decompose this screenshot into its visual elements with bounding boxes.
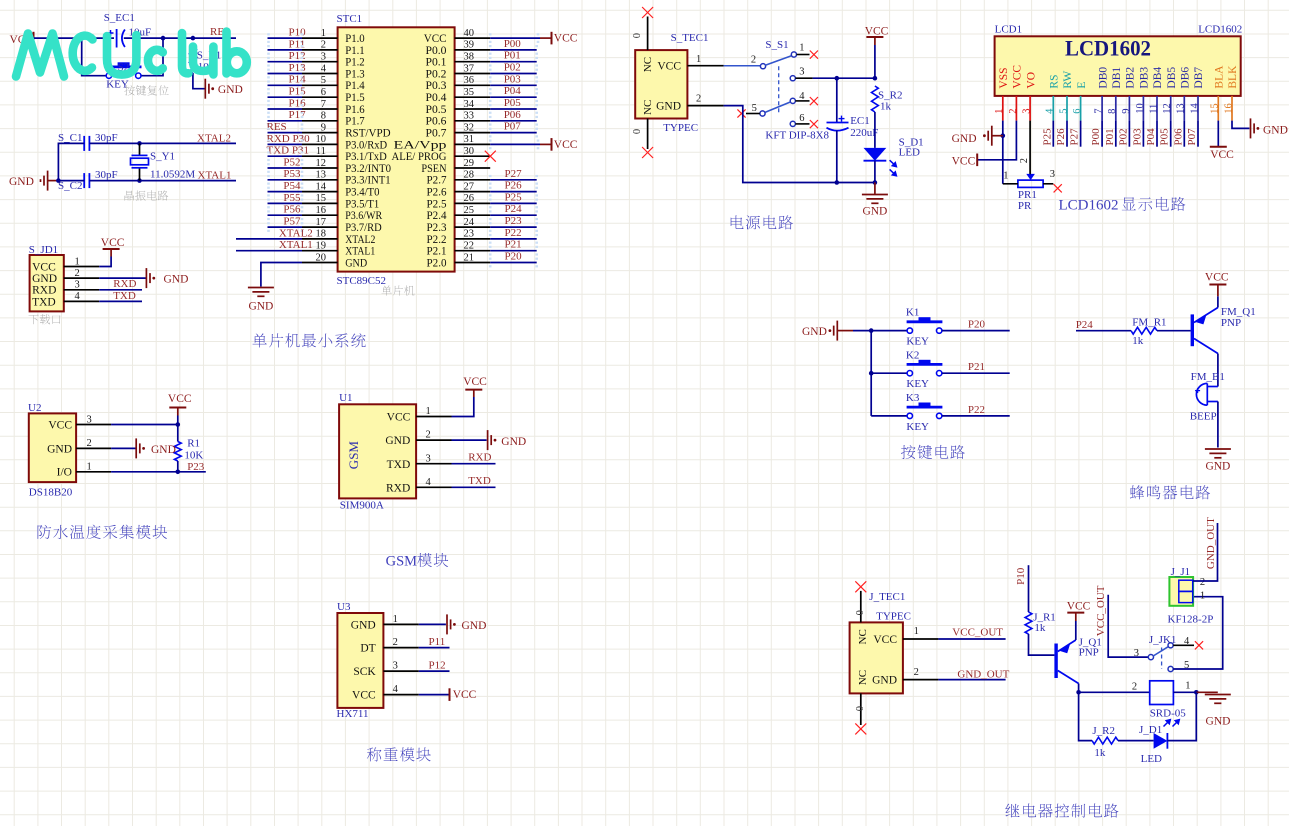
svg-text:GND: GND — [862, 206, 887, 218]
svg-text:GND_OUT: GND_OUT — [1205, 517, 1217, 569]
svg-text:KEY: KEY — [906, 378, 929, 390]
junction — [161, 36, 166, 41]
wire net P03 — [490, 84, 537, 86]
ground (U1) — [488, 430, 497, 450]
svg-text:TXD P31: TXD P31 — [267, 145, 309, 157]
svg-text:2: 2 — [321, 40, 326, 51]
wire collector to VCC — [1217, 296, 1219, 307]
wire coil to ground — [1173, 691, 1196, 693]
wire net P11 — [268, 49, 303, 51]
svg-text:P21: P21 — [968, 361, 985, 373]
wire net P10 — [268, 37, 303, 39]
S_JD1 pin 3 RXD — [64, 289, 99, 291]
svg-text:FM_B1: FM_B1 — [1191, 371, 1225, 383]
svg-text:P07: P07 — [1186, 128, 1198, 146]
switch JK1 pin4 lead — [1173, 644, 1194, 646]
wire GND to pin1 — [992, 135, 1003, 137]
wire LCD pin9 — [1128, 121, 1130, 147]
mcu pin 36 (P0.3) — [455, 84, 491, 86]
gray label 按键复位 — [124, 85, 168, 95]
wire junction down — [1079, 692, 1092, 740]
junction marks — [267, 45, 270, 55]
svg-text:KEY: KEY — [906, 336, 929, 348]
svg-text:P15: P15 — [289, 86, 307, 98]
svg-text:GND: GND — [151, 444, 176, 456]
resistor R1 10K — [177, 425, 179, 442]
svg-text:U2: U2 — [28, 402, 41, 414]
svg-text:P24: P24 — [1076, 319, 1094, 331]
svg-text:P52: P52 — [283, 156, 300, 168]
svg-text:7: 7 — [1094, 109, 1105, 114]
svg-text:1: 1 — [1003, 171, 1008, 182]
svg-text:22: 22 — [464, 241, 475, 252]
svg-text:S_Y1: S_Y1 — [150, 151, 175, 163]
wire net P12 — [419, 670, 450, 672]
no-ERC mark pin30 — [485, 151, 496, 162]
svg-text:P11: P11 — [289, 38, 306, 50]
svg-text:P2.5: P2.5 — [427, 198, 447, 210]
section title 蜂鸣器电路 — [1130, 485, 1210, 499]
ground (buzzer) — [1205, 449, 1231, 458]
svg-text:36: 36 — [464, 75, 475, 86]
svg-text:8: 8 — [321, 111, 326, 122]
svg-text:0: 0 — [855, 706, 866, 711]
svg-text:LED: LED — [899, 147, 920, 159]
svg-text:P17: P17 — [289, 109, 307, 121]
svg-text:TXD: TXD — [113, 290, 136, 302]
wire TEC1 pin2 down — [724, 106, 875, 183]
wire LCD pin16 (BLK) — [1232, 121, 1249, 129]
section title 称重模块 — [367, 747, 431, 761]
svg-text:VCC: VCC — [387, 412, 411, 424]
S_JD1 pin 4 TXD — [64, 300, 99, 302]
svg-text:DB2: DB2 — [1125, 67, 1137, 89]
svg-text:9: 9 — [321, 122, 326, 133]
svg-text:P1.4: P1.4 — [345, 80, 365, 92]
mcu pin 19 (XTAL1) — [302, 250, 338, 252]
svg-text:P00: P00 — [1090, 128, 1102, 146]
svg-text:14: 14 — [316, 181, 327, 192]
wire left bus — [58, 143, 84, 180]
wire P10 down — [1028, 565, 1030, 612]
wire J_TEC1 bottom stub — [860, 693, 862, 725]
svg-text:19: 19 — [316, 241, 327, 252]
U2 pin 3 VCC — [76, 424, 111, 426]
svg-text:40: 40 — [464, 28, 475, 39]
svg-text:KEY: KEY — [906, 421, 929, 433]
junction — [873, 76, 878, 81]
svg-text:RES: RES — [267, 121, 287, 133]
wire net RXD — [99, 289, 142, 291]
svg-text:U3: U3 — [337, 601, 351, 613]
junction — [137, 141, 142, 146]
svg-text:GND: GND — [345, 257, 367, 269]
svg-text:GND: GND — [164, 273, 189, 285]
svg-text:1: 1 — [914, 626, 919, 637]
svg-text:BLA: BLA — [1214, 65, 1226, 89]
wire C2 to XTAL1 — [89, 180, 236, 182]
svg-text:VCC: VCC — [1012, 65, 1024, 89]
wire pin20 to ground — [261, 263, 302, 287]
svg-text:P02: P02 — [1117, 128, 1129, 145]
no-ERC mark (S1 pin4) — [810, 97, 818, 105]
svg-text:1: 1 — [87, 462, 92, 473]
svg-text:P04: P04 — [504, 85, 522, 97]
svg-text:P1.0: P1.0 — [345, 33, 365, 45]
wire LCD pin3 (VO) — [1029, 121, 1031, 174]
junction marks — [489, 104, 492, 114]
svg-text:3: 3 — [1022, 109, 1033, 114]
svg-text:1k: 1k — [1094, 747, 1106, 759]
svg-text:2: 2 — [87, 438, 92, 449]
junction marks — [267, 187, 270, 197]
junction marks — [267, 210, 270, 220]
svg-text:GND: GND — [802, 326, 827, 338]
mcu pin 10 (P3.0/RxD) — [302, 143, 338, 145]
svg-text:P55: P55 — [283, 192, 301, 204]
svg-text:DT: DT — [360, 643, 375, 655]
mcu gray label 单片机 — [381, 285, 414, 295]
wire LCD pin5 — [1066, 121, 1068, 147]
connector J_J1 body — [1169, 577, 1193, 606]
wire TEC1 bottom stub — [647, 119, 649, 150]
mcu pin 1 (P1.0) — [302, 37, 338, 39]
capacitor S_EC1 10uF — [117, 29, 125, 48]
no-ERC mark (S1 pin6) — [810, 120, 818, 128]
mcu pin 13 (P3.3/INT1) — [302, 179, 338, 181]
svg-text:RS: RS — [1049, 75, 1061, 89]
wire net P15 — [268, 96, 303, 98]
mcu pin 11 (P3.1/TxD) — [302, 155, 338, 157]
svg-text:P3.5/T1: P3.5/T1 — [345, 198, 379, 210]
svg-text:I/O: I/O — [57, 467, 72, 479]
resistor FM_R1 1k — [1131, 327, 1157, 334]
svg-text:P13: P13 — [289, 62, 307, 74]
wire LCD pin12 — [1170, 121, 1172, 147]
switch pin6 circle — [790, 121, 795, 126]
junction — [835, 76, 840, 81]
svg-text:P14: P14 — [289, 74, 307, 86]
mcu pin 29 (PSEN) — [455, 167, 491, 169]
svg-text:P1.7: P1.7 — [345, 116, 365, 128]
svg-text:P04: P04 — [1145, 128, 1157, 146]
mcu pin 6 (P1.5) — [302, 96, 338, 98]
svg-text:GND_OUT: GND_OUT — [957, 669, 1009, 681]
mcu pin 34 (P0.5) — [455, 108, 491, 110]
svg-text:P03: P03 — [504, 73, 522, 85]
svg-text:LCD1602: LCD1602 — [1198, 23, 1242, 35]
svg-text:12: 12 — [316, 158, 327, 169]
wire net P13 — [268, 73, 303, 75]
switch pin1 circle — [791, 52, 796, 57]
mcu STC1 body — [338, 27, 455, 271]
mcu pin 7 (P1.6) — [302, 108, 338, 110]
section title 防水温度采集模块 — [38, 525, 168, 539]
U1 pin 2 GND — [416, 439, 451, 441]
svg-text:3: 3 — [1050, 169, 1055, 180]
wire LCD pin11 — [1156, 121, 1158, 147]
mcu pin 33 (P0.6) — [455, 120, 491, 122]
svg-text:GND: GND — [1205, 460, 1230, 472]
no-ERC mark (TEC1 top) — [642, 7, 653, 18]
wire bus to K2 — [871, 372, 907, 374]
switch pin1 lead — [797, 54, 810, 56]
junction marks — [489, 199, 492, 209]
logo MCUclub — [16, 32, 247, 77]
U1 pin 4 RXD — [416, 486, 451, 488]
no-ERC mark (PR1 pin3) — [1054, 184, 1062, 192]
svg-text:RXD: RXD — [32, 285, 56, 297]
wire net TXD(pin11) — [268, 155, 303, 157]
mcu pin 20 (GND) — [302, 262, 338, 264]
switch dashed link — [778, 66, 780, 113]
svg-text:ALE/ PROG: ALE/ PROG — [392, 151, 447, 163]
mcu pin 32 (P0.7) — [455, 132, 491, 134]
svg-text:S_C1: S_C1 — [58, 132, 82, 144]
power VCC (U2) — [169, 407, 186, 409]
svg-text:11: 11 — [316, 146, 326, 157]
svg-text:TXD: TXD — [32, 296, 56, 308]
svg-text:P3.6/WR: P3.6/WR — [345, 210, 382, 222]
svg-text:VCC: VCC — [101, 237, 125, 249]
svg-text:0: 0 — [632, 129, 643, 134]
wire net P11 — [419, 647, 450, 649]
svg-text:4: 4 — [393, 684, 399, 695]
svg-text:LCD1602: LCD1602 — [1065, 36, 1151, 61]
svg-text:1: 1 — [426, 406, 431, 417]
svg-text:34: 34 — [464, 99, 475, 110]
LCD1 body — [995, 36, 1241, 96]
svg-text:P3.0/RxD: P3.0/RxD — [345, 139, 387, 151]
svg-text:RXD: RXD — [468, 451, 491, 463]
svg-text:21: 21 — [464, 252, 475, 263]
wire EC1 branch top — [836, 78, 838, 122]
junction marks — [267, 199, 270, 209]
svg-text:VCC: VCC — [1067, 600, 1091, 612]
svg-text:KFT DIP-8X8: KFT DIP-8X8 — [765, 130, 829, 142]
no-ERC mark (J_TEC1 top) — [855, 581, 866, 592]
wire net P17 — [268, 120, 303, 122]
svg-text:2: 2 — [914, 667, 919, 678]
wire button right leg — [141, 38, 163, 76]
svg-text:P2.3: P2.3 — [427, 222, 447, 234]
svg-text:P25: P25 — [505, 191, 523, 203]
svg-text:17: 17 — [316, 217, 327, 228]
svg-text:XTAL1: XTAL1 — [198, 170, 232, 182]
wire cap to RES — [124, 37, 236, 39]
mcu pin 40 (VCC) — [455, 37, 491, 39]
svg-text:S_JD1: S_JD1 — [29, 244, 58, 256]
svg-text:33: 33 — [464, 111, 475, 122]
svg-text:15: 15 — [316, 193, 327, 204]
svg-text:STC1: STC1 — [337, 13, 363, 25]
wire J_Q1 collector to VCC — [1075, 621, 1077, 640]
svg-text:P27: P27 — [505, 168, 523, 180]
resistor J_R2 1k — [1092, 737, 1118, 744]
svg-text:RXD P30: RXD P30 — [267, 133, 311, 145]
svg-text:6: 6 — [799, 113, 804, 124]
wire J_J1 pin2 to GND_OUT — [1193, 523, 1217, 581]
svg-text:15: 15 — [1210, 103, 1221, 114]
ground (U2) — [136, 438, 145, 458]
svg-text:VCC: VCC — [32, 261, 56, 273]
pushbutton K2 — [907, 360, 943, 376]
mcu pin 21 (P2.0) — [455, 262, 491, 264]
wire net P26 — [490, 191, 537, 193]
mcu pin 28 (P2.7) — [455, 179, 491, 181]
svg-text:P05: P05 — [1159, 128, 1171, 146]
svg-text:4: 4 — [426, 477, 432, 488]
svg-text:DB6: DB6 — [1180, 67, 1192, 89]
junction marks — [489, 128, 492, 138]
mcu pin 26 (P2.5) — [455, 202, 491, 204]
wire net XTAL2(pin18) — [236, 238, 302, 240]
svg-text:P12: P12 — [429, 660, 446, 672]
mcu pin 37 (P0.2) — [455, 73, 491, 75]
wire J_R1 to base — [1029, 634, 1055, 655]
wire U2 VCC — [111, 424, 178, 426]
pushbutton K1 — [907, 317, 943, 333]
mcu pin 12 (P3.2/INT0) — [302, 167, 338, 169]
power VCC (pin40) — [551, 32, 553, 45]
junction marks — [489, 116, 492, 126]
switch pin2 circle — [760, 64, 765, 69]
wire net P21 — [490, 250, 537, 252]
svg-text:GND: GND — [9, 176, 34, 188]
S_JD1 pin 2 GND — [64, 277, 99, 279]
ground (U3) — [447, 614, 456, 634]
svg-text:GSM: GSM — [386, 554, 418, 570]
svg-text:P26: P26 — [505, 180, 523, 192]
wire EC1 branch bottom — [836, 131, 838, 183]
wire net XTAL1(pin19) — [236, 250, 302, 252]
junction marks — [489, 187, 492, 197]
module U1 body — [339, 404, 416, 498]
svg-text:35: 35 — [464, 87, 475, 98]
junction marks — [489, 246, 492, 256]
svg-text:P27: P27 — [1069, 128, 1081, 146]
svg-text:VCC: VCC — [1210, 149, 1234, 161]
svg-text:VCC: VCC — [463, 376, 487, 388]
pot PR1 body — [1018, 180, 1043, 187]
wire net P00 — [490, 49, 537, 51]
svg-text:10: 10 — [1135, 103, 1146, 114]
wire net P23 — [490, 226, 537, 228]
no-ERC mark (S1 pin5) — [737, 109, 745, 117]
wire VCC stub — [177, 416, 179, 425]
U3 pin 2 DT — [383, 647, 418, 649]
wire VCC stub — [874, 37, 876, 45]
wire net P54 — [268, 191, 303, 193]
svg-text:P25: P25 — [1041, 128, 1053, 146]
svg-text:16: 16 — [1223, 103, 1234, 114]
svg-text:1: 1 — [1200, 591, 1205, 602]
svg-text:DB1: DB1 — [1111, 67, 1123, 89]
svg-text:3: 3 — [799, 66, 804, 77]
svg-text:2: 2 — [393, 637, 398, 648]
svg-text:XTAL1: XTAL1 — [279, 239, 313, 251]
wire LCD pin14 — [1197, 121, 1199, 147]
svg-text:GND: GND — [656, 101, 681, 113]
switch JK1 dashed link — [1161, 648, 1163, 670]
wire LCD pin4 — [1052, 121, 1054, 147]
wire LED to ground rail — [874, 161, 876, 183]
svg-text:P1.5: P1.5 — [345, 92, 365, 104]
svg-text:J_J1: J_J1 — [1171, 566, 1191, 578]
switch JK1 arm — [1153, 647, 1168, 656]
svg-text:10K: 10K — [184, 450, 203, 462]
switch JK1 pin4 circle — [1168, 643, 1173, 648]
mcu pin 14 (P3.4/T0) — [302, 191, 338, 193]
svg-text:1k: 1k — [1034, 622, 1046, 634]
capacitor S_C2 30pF — [84, 173, 89, 188]
wire pin31 to VCC — [490, 143, 540, 145]
svg-text:P2.1: P2.1 — [427, 246, 447, 258]
svg-text:NC: NC — [857, 670, 869, 685]
svg-text:LED: LED — [1141, 753, 1162, 765]
svg-text:23: 23 — [464, 229, 475, 240]
svg-text:LCD1: LCD1 — [995, 23, 1023, 35]
wire pin3 to VCC rail — [813, 77, 875, 79]
J_TEC1 pin 1 VCC — [903, 638, 939, 640]
wire net P05 — [490, 108, 537, 110]
svg-text:PNP: PNP — [1079, 647, 1099, 659]
power VCC (pin31) — [551, 138, 553, 151]
wire net GND_OUT — [938, 679, 1005, 681]
svg-text:P0.5: P0.5 — [426, 104, 447, 116]
wire TEC1 top stub — [647, 17, 649, 51]
no-ERC mark (JK1 pin4) — [1195, 641, 1203, 649]
svg-text:0: 0 — [855, 610, 866, 615]
svg-text:R1: R1 — [187, 437, 200, 449]
svg-text:P54: P54 — [283, 180, 301, 192]
svg-text:P26: P26 — [1055, 128, 1067, 146]
svg-text:1: 1 — [1185, 681, 1190, 692]
svg-text:P00: P00 — [504, 38, 522, 50]
svg-text:1k: 1k — [880, 101, 892, 113]
wire LED up to junction — [1167, 692, 1196, 740]
junction — [873, 180, 878, 185]
junction — [1194, 690, 1199, 695]
svg-text:P12: P12 — [289, 50, 306, 62]
svg-text:TYPEC: TYPEC — [876, 610, 911, 622]
switch arm 2-1 — [765, 56, 792, 66]
wire resistor to ground — [193, 73, 205, 89]
svg-text:P23: P23 — [187, 461, 205, 473]
svg-text:XTAL2: XTAL2 — [345, 234, 375, 246]
svg-text:30pF: 30pF — [95, 169, 118, 181]
svg-text:P56: P56 — [283, 204, 301, 216]
svg-text:P3.4/T0: P3.4/T0 — [345, 187, 380, 199]
wire K2 to P21 — [942, 372, 1010, 374]
wire net P14 — [268, 84, 303, 86]
mcu pin 38 (P0.1) — [455, 61, 491, 63]
mcu pin 25 (P2.4) — [455, 214, 491, 216]
junction marks — [489, 175, 492, 185]
relay arrows — [1164, 720, 1171, 727]
wire resistor to base — [1157, 330, 1191, 332]
mcu pin 8 (P1.7) — [302, 120, 338, 122]
junction — [835, 180, 840, 185]
svg-text:DB7: DB7 — [1193, 67, 1205, 89]
svg-text:RXD: RXD — [113, 278, 136, 290]
module U3 body — [337, 613, 383, 708]
svg-text:VCC: VCC — [865, 26, 889, 38]
resistor J_R1 1k — [1025, 612, 1032, 634]
svg-text:GND: GND — [501, 436, 526, 448]
svg-text:P1.1: P1.1 — [345, 45, 365, 57]
svg-text:2: 2 — [1200, 577, 1205, 588]
